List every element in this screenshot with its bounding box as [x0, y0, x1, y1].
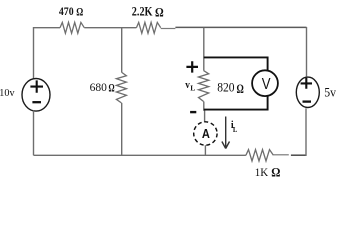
wire top horizontal right segment: [161, 28, 176, 30]
svg-text:680: 680: [90, 81, 108, 94]
wire ammeter to bottom: [204, 145, 206, 155]
wire right vertical bottom: [305, 108, 307, 156]
voltmeter U1 circle: [252, 70, 278, 96]
resistor R1 470ohm zigzag: [60, 22, 84, 33]
wire branch 680 vertical top: [121, 28, 123, 72]
wire 820 to ammeter: [203, 102, 206, 122]
wire right vertical top: [306, 27, 308, 76]
minus sign of 10v: [32, 101, 41, 103]
svg-text:A: A: [202, 126, 211, 141]
voltmeter wire top: [204, 57, 268, 70]
resistor R5 1K zigzag: [246, 150, 274, 161]
svg-text:Ω: Ω: [109, 81, 115, 95]
wire bottom right segment 2: [291, 154, 306, 156]
wire branch 680 vertical bottom: [121, 103, 123, 155]
svg-text:10v: 10v: [0, 88, 15, 99]
resistor R4 820 zigzag: [199, 71, 209, 102]
resistor R2 2.2K zigzag: [136, 22, 160, 33]
current arrow iL: [222, 117, 230, 149]
wire bottom horizontal right segment: [273, 154, 288, 156]
svg-text:470: 470: [59, 4, 74, 18]
wire top horizontal left segment: [34, 27, 61, 29]
plus sign of 10v: [30, 80, 43, 92]
svg-text:Ω: Ω: [76, 7, 83, 19]
minus sign vL polarity: [190, 111, 196, 113]
wire bottom horizontal left segment: [34, 154, 246, 156]
wire top horizontal right segment 2: [175, 26, 306, 28]
wire branch 820 vertical top: [203, 28, 205, 71]
svg-text:L: L: [233, 125, 237, 134]
svg-text:V: V: [262, 76, 271, 93]
wire left vertical top: [33, 27, 35, 80]
plus sign vL polarity: [186, 61, 198, 72]
ammeter A1 dashed circle: [194, 122, 217, 145]
svg-text:v: v: [185, 80, 190, 91]
svg-text:2.2K: 2.2K: [132, 3, 153, 18]
voltmeter wire bottom: [204, 96, 268, 110]
source V1 10v circle: [22, 79, 50, 112]
svg-text:5v: 5v: [324, 85, 337, 99]
minus sign of 5v: [303, 100, 312, 102]
svg-text:Ω: Ω: [271, 165, 280, 180]
svg-text:820: 820: [217, 81, 234, 95]
plus sign of 5v: [301, 78, 312, 89]
svg-text:L: L: [190, 83, 195, 92]
svg-text:Ω: Ω: [237, 82, 244, 96]
svg-text:Ω: Ω: [155, 4, 164, 19]
resistor R3 680 zigzag: [116, 72, 126, 103]
svg-text:1K: 1K: [255, 165, 269, 179]
source V2 5v circle: [296, 77, 319, 107]
wire left vertical bottom: [33, 111, 35, 156]
wire top horizontal middle segment: [84, 27, 136, 29]
